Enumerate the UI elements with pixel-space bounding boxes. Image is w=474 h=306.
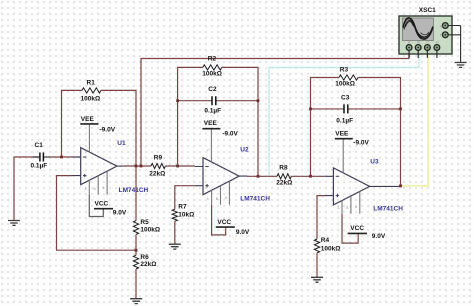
svg-text:1: 1 <box>207 196 210 201</box>
resistor R4 <box>314 237 340 253</box>
svg-text:R8: R8 <box>279 165 288 172</box>
wire U3 inverting input to R4 <box>317 196 325 239</box>
svg-text:7: 7 <box>337 158 340 163</box>
wire C1 to U1 noninverting input (node A) <box>50 156 81 158</box>
svg-text:U2: U2 <box>240 146 249 153</box>
junction R2 loop at R9/U2 input <box>176 165 179 168</box>
resistor R6 <box>133 254 156 269</box>
svg-text:9.0V: 9.0V <box>372 233 386 240</box>
svg-text:C2: C2 <box>208 86 217 93</box>
svg-text:VEE: VEE <box>81 116 95 123</box>
svg-text:7: 7 <box>207 148 210 153</box>
svg-text:G: G <box>440 23 443 28</box>
label LM741CH (U3) <box>373 206 403 213</box>
svg-text:0.1µF: 0.1µF <box>336 117 353 124</box>
junction R1 leg at U1 output <box>135 165 138 168</box>
resistor R3 <box>335 67 358 88</box>
svg-text:C3: C3 <box>341 95 350 102</box>
svg-text:4: 4 <box>102 185 105 190</box>
svg-text:-9.0V: -9.0V <box>353 139 369 146</box>
svg-text:9.0V: 9.0V <box>236 229 250 236</box>
svg-text:R9: R9 <box>154 155 163 162</box>
wire R7 to ground <box>174 221 176 244</box>
svg-text:R5: R5 <box>140 219 149 226</box>
resistor R1 <box>81 80 101 103</box>
resistor R7 <box>172 203 194 221</box>
wire U1 output row to R9 <box>124 165 151 167</box>
label LM741CH (U1) <box>119 187 149 194</box>
power rail VEE (U1) -9.0V <box>80 116 115 152</box>
wire scope G and T terminals to ground <box>448 26 460 63</box>
svg-text:1: 1 <box>337 205 340 210</box>
svg-text:D: D <box>436 40 439 45</box>
junction R1/C1 at node A <box>60 156 63 159</box>
op-amp U3 <box>325 158 399 214</box>
power rail VCC (U2) 9.0V <box>212 205 250 236</box>
svg-text:100kΩ: 100kΩ <box>140 226 160 233</box>
wire U3 output to scope channel C (yellow) <box>399 52 428 186</box>
label U2 <box>240 146 249 153</box>
ground (C1 input) <box>8 221 20 226</box>
junction R3 loop at U3 output <box>399 185 402 188</box>
op-amp U2 <box>195 148 247 205</box>
junction R3 loop at U3 input <box>309 175 312 178</box>
svg-text:100kΩ: 100kΩ <box>335 80 355 87</box>
label XSC1 <box>419 7 436 14</box>
svg-text:100kΩ: 100kΩ <box>202 71 222 78</box>
svg-text:22kΩ: 22kΩ <box>149 171 165 178</box>
svg-text:-9.0V: -9.0V <box>100 126 116 133</box>
svg-text:LM741CH: LM741CH <box>240 196 270 203</box>
wire R2/C2 loop left leg <box>178 67 203 166</box>
svg-text:VCC: VCC <box>217 219 231 226</box>
power rail VEE (U3) -9.0V <box>335 131 370 173</box>
wire R5 to divider node <box>135 234 137 255</box>
svg-text:0.1µF: 0.1µF <box>204 107 221 114</box>
power rail VEE (U2) -9.0V <box>202 120 238 162</box>
capacitor C2 <box>178 86 258 114</box>
junction C3 left leg <box>309 108 312 111</box>
svg-text:C1: C1 <box>35 142 44 149</box>
junction C2 right leg <box>257 99 260 102</box>
wire R4 to ground <box>316 253 318 277</box>
ground (R7) <box>169 244 181 249</box>
ground (R6) <box>130 299 142 304</box>
junction R2 loop at U2 output <box>257 175 260 178</box>
power rail VCC (U1) 9.0V <box>89 195 127 217</box>
svg-text:22kΩ: 22kΩ <box>276 180 292 187</box>
svg-text:100kΩ: 100kΩ <box>321 246 341 253</box>
ground (R4) <box>311 277 323 282</box>
svg-text:R3: R3 <box>340 67 349 74</box>
wire U2 output to R8 <box>247 175 277 177</box>
svg-text:VCC: VCC <box>350 225 364 232</box>
wire U1 output to R5 (divider chain) <box>135 166 137 221</box>
junction C2 left leg <box>176 99 179 102</box>
wire R9 to U2 noninverting input <box>165 165 195 167</box>
wire R8 to U3 noninverting input <box>291 175 325 177</box>
wire scope terminal pins <box>409 50 437 58</box>
svg-text:1: 1 <box>85 186 88 191</box>
wire R3/C3 loop left leg <box>311 78 340 177</box>
svg-text:U3: U3 <box>370 158 379 165</box>
svg-text:R6: R6 <box>140 254 149 261</box>
junction divider node R5/R6 <box>135 249 138 252</box>
wire R2 right leg to U2 output <box>222 67 258 176</box>
resistor R9 <box>149 155 165 178</box>
svg-text:R2: R2 <box>208 56 217 63</box>
resistor R2 <box>202 56 222 78</box>
wire R1 right leg to U1 output <box>101 90 136 166</box>
svg-text:U1: U1 <box>117 140 126 147</box>
svg-text:10kΩ: 10kΩ <box>178 212 194 219</box>
label U3 <box>370 158 379 165</box>
svg-text:LM741CH: LM741CH <box>119 187 149 194</box>
svg-text:5: 5 <box>346 205 349 210</box>
ground (scope) <box>455 63 467 68</box>
wire U1 output to scope channel A (top long wire) <box>141 51 409 166</box>
label LM741CH (U2) <box>240 196 270 203</box>
wire R1 left leg down to node A <box>62 90 83 157</box>
op-amp U1 <box>73 148 125 195</box>
svg-text:4: 4 <box>225 195 228 200</box>
svg-text:0.1µF: 0.1µF <box>31 163 48 170</box>
svg-text:9.0V: 9.0V <box>113 209 127 216</box>
svg-text:B: B <box>417 40 420 45</box>
svg-text:C: C <box>426 40 429 45</box>
wire divider node feedback to U1 inverting input <box>57 176 137 251</box>
wire C1 left terminal to ground <box>14 157 39 220</box>
wire R6 to ground <box>135 269 137 298</box>
junction scope wire at U1 output <box>140 165 143 168</box>
label U1 <box>117 140 126 147</box>
svg-text:VEE: VEE <box>204 120 218 127</box>
wire R3 right leg to U3 output <box>358 78 401 186</box>
resistor R5 <box>133 219 160 234</box>
wire U2 output to scope channel B (cyan) <box>269 52 419 176</box>
instrument XSC1 oscilloscope <box>399 16 452 54</box>
svg-text:R4: R4 <box>321 237 330 244</box>
svg-text:5: 5 <box>93 186 96 191</box>
svg-text:100kΩ: 100kΩ <box>81 95 101 102</box>
svg-text:22kΩ: 22kΩ <box>140 261 156 268</box>
capacitor C1 <box>31 142 51 170</box>
svg-text:-9.0V: -9.0V <box>222 130 238 137</box>
svg-text:4: 4 <box>355 204 358 209</box>
wire U2 inverting input to R7 <box>175 186 195 210</box>
power rail VCC (U3) 9.0V <box>342 214 386 243</box>
svg-text:LM741CH: LM741CH <box>373 206 403 213</box>
capacitor C3 <box>311 95 401 125</box>
resistor R8 <box>276 165 292 187</box>
svg-text:XSC1: XSC1 <box>419 7 436 14</box>
svg-text:R7: R7 <box>178 203 187 210</box>
svg-text:A: A <box>408 40 411 45</box>
svg-text:VEE: VEE <box>335 131 349 138</box>
svg-text:VCC: VCC <box>95 201 109 208</box>
svg-text:5: 5 <box>216 196 219 201</box>
junction C3 right leg <box>399 108 402 111</box>
svg-text:R1: R1 <box>87 80 96 87</box>
